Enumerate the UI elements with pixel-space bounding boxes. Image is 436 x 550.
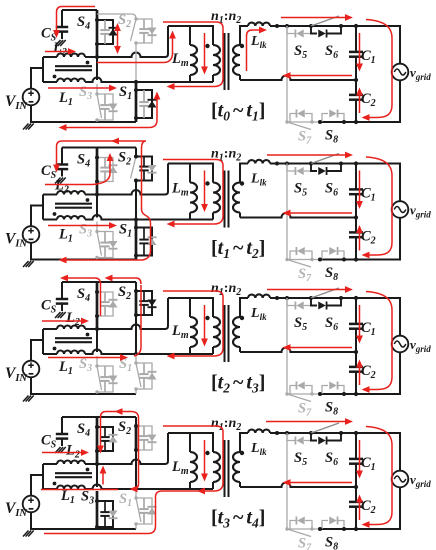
capacitor C1 (panel 4)	[349, 433, 363, 487]
current path magnetizing inductance (panel 3)	[201, 305, 208, 347]
switch S6 blade (open) (panel 2)	[311, 154, 339, 164]
current path S2 column down (panel 3)	[134, 285, 141, 356]
capacitor C1 (panel 3)	[349, 298, 363, 352]
current path secondary winding up to rail (panel 1)	[247, 27, 268, 71]
label S3 (panel 3)	[79, 356, 92, 374]
wire L2 row to transformer (hop at x=136) (panel 4)	[85, 433, 168, 464]
current path grid loop (panel 3)	[362, 292, 393, 393]
grid source vgrid (panel 2)	[392, 201, 409, 218]
switch S3 box with capacitor and diode (panel 4)	[97, 501, 118, 527]
label S8 (panel 1)	[325, 128, 338, 146]
current path L1 arrow (panel 1)	[48, 85, 117, 92]
current path top rail arrow (panel 2)	[267, 152, 353, 159]
middle rail secondary to C1-C2 (hop at x=286) (panel 1)	[240, 76, 356, 81]
transformer secondary winding (panel 3)	[233, 317, 240, 347]
polarity dot L1 (panel 3)	[53, 347, 57, 351]
switch S2 box with capacitor and diode (panel 2)	[136, 157, 157, 181]
current path L1 arrow (panel 3)	[48, 354, 128, 361]
current path L2 through S4 diode (panel 2)	[45, 153, 113, 185]
switch S8 loop and diode (panel 2)	[322, 247, 344, 260]
switch S1 blade (open) (panel 3)	[134, 361, 141, 390]
label S1 (panel 3)	[119, 356, 132, 374]
label L1 (panel 3)	[58, 359, 73, 377]
current path through C1 (panel 2)	[356, 171, 363, 210]
middle rail secondary to C1-C2 (hop at x=286) (panel 2)	[240, 213, 356, 218]
label S2 (panel 2)	[118, 150, 131, 168]
current path middle rail (panel 4)	[283, 479, 353, 486]
capacitor CS (panel 1)	[56, 10, 68, 39]
label CS (panel 4)	[41, 433, 57, 451]
current path S4 up to CS (panel 3)	[60, 275, 101, 316]
wire VIN to coupled inductor (panel 3)	[31, 329, 57, 361]
wire L2 row to transformer (hop at x=136) (panel 3)	[85, 298, 168, 329]
leakage inductance Llk (panel 3)	[248, 294, 270, 298]
switch S5 loop and diode (panel 4)	[287, 433, 311, 445]
transformer primary winding (panel 3)	[213, 317, 220, 347]
polarity dot L2 (panel 2)	[86, 198, 90, 202]
switch S7 loop and diode (panel 2)	[290, 247, 312, 260]
grey column S7 branch (panel 2)	[286, 164, 288, 260]
wire S2 to L1 row (grey) (panel 1)	[135, 43, 137, 80]
current path middle rail (panel 1)	[283, 72, 353, 79]
transformer primary top wire (panel 4)	[168, 433, 213, 452]
transformer secondary bottom stub (panel 1)	[239, 75, 241, 80]
switch S4 main line (closed) (panel 4)	[96, 417, 99, 464]
current path through C2 (panel 3)	[356, 360, 363, 386]
label CS (panel 1)	[41, 26, 57, 44]
switch S4 main line (closed) (panel 3)	[96, 282, 99, 329]
interval label (panel 2)	[211, 237, 265, 261]
label Lm (panel 3)	[171, 323, 189, 341]
node dot L1-S1 (panel 1)	[134, 80, 138, 84]
node dots top rail (panel 3)	[275, 296, 343, 300]
ground at VIN (panel 4)	[23, 531, 34, 537]
label vgrid (panel 1)	[410, 65, 431, 82]
top rail CS to S4 (panel 2)	[62, 147, 136, 149]
grid source vgrid (panel 1)	[392, 64, 409, 81]
label Lm (panel 4)	[171, 459, 189, 477]
switch S4 box with capacitor and diode (panel 4)	[97, 427, 118, 451]
polarity dot L2 (panel 3)	[86, 333, 90, 337]
transformer secondary winding (panel 2)	[233, 183, 240, 213]
top rail CS to S4 (panel 4)	[62, 416, 136, 418]
ground at CS (panel 4)	[55, 447, 66, 453]
grey column S7 branch (panel 3)	[286, 298, 288, 394]
switch S6 loop and diode (panel 2)	[311, 164, 341, 176]
current path L1 row (panel 4)	[41, 489, 118, 491]
label vgrid (panel 4)	[410, 472, 431, 489]
label VIN (panel 1)	[5, 93, 27, 112]
node dot bottom rail at C2 (panel 2)	[354, 257, 358, 261]
label S1 (panel 2)	[119, 222, 132, 240]
label S2 (panel 1)	[118, 12, 131, 30]
label C1 (panel 4)	[361, 455, 376, 473]
current path bottom rail and S1 (panel 1)	[59, 92, 161, 131]
node dot L2-S4 (panel 2)	[95, 192, 99, 196]
node dots S1 (panel 2)	[134, 226, 138, 258]
label Llk (panel 4)	[250, 441, 267, 457]
switch S3 box with capacitor and diode (panel 2)	[97, 232, 118, 258]
ground at CS (panel 3)	[55, 312, 66, 318]
node dot L1-S1 (panel 3)	[134, 352, 138, 356]
transformer primary bottom wire (panel 1)	[136, 75, 213, 82]
polarity dot secondary (panel 1)	[240, 44, 244, 48]
node dot C1-C2 midpoint (panel 3)	[354, 350, 358, 354]
transformer secondary bottom stub (panel 4)	[239, 482, 241, 487]
wire S2 to L1 row (panel 4)	[135, 450, 137, 487]
label CS (panel 3)	[41, 298, 57, 316]
secondary top rail (panel 2)	[270, 164, 400, 260]
label C1 (panel 2)	[361, 186, 376, 204]
polarity dot L2 (panel 4)	[86, 468, 90, 472]
ground at VIN (panel 3)	[23, 396, 34, 402]
transformer primary winding (panel 4)	[213, 452, 220, 482]
transformer core (panel 4)	[225, 440, 229, 497]
grey column S7 branch (panel 1)	[286, 26, 288, 122]
wire VIN to coupled inductor (panel 1)	[31, 57, 57, 89]
capacitor C2 (panel 3)	[349, 352, 363, 394]
node dots S8 (panel 1)	[318, 120, 346, 124]
polarity dot L1 (panel 2)	[53, 212, 57, 216]
rail corner into S2 (panel 2)	[135, 148, 137, 157]
current path transformer primary loop (panel 4)	[44, 426, 223, 534]
switch S1 main line (closed) (panel 2)	[135, 220, 138, 260]
middle rail secondary to C1-C2 (hop at x=286) (panel 3)	[240, 348, 356, 353]
transformer secondary top stub (panel 3)	[240, 298, 248, 317]
label Llk (panel 3)	[250, 306, 267, 322]
switch S3 stub (panel 2)	[96, 222, 98, 232]
capacitor C2 (panel 4)	[349, 487, 363, 529]
bottom branch wire (grey part) (panel 1)	[287, 121, 320, 123]
transformer primary top wire (panel 3)	[168, 298, 213, 317]
node dot C1-C2 midpoint (panel 4)	[354, 485, 358, 489]
label n1:n2 (panel 4)	[211, 416, 241, 433]
switch S7 blade (open) (panel 3)	[285, 392, 313, 401]
wire VIN to ground / bottom rail (panel 4)	[31, 512, 136, 529]
node dot L2-S4 (panel 1)	[95, 55, 99, 59]
label L1 (panel 4)	[60, 488, 75, 506]
label S4 (panel 2)	[77, 152, 90, 170]
switch S1 box with capacitor and diode (panel 3)	[136, 363, 157, 389]
inductor L1 (panel 1)	[57, 79, 85, 83]
current path top rail arrow (panel 1)	[281, 14, 353, 21]
leakage inductance Llk (panel 2)	[248, 160, 270, 164]
inductor L2 (panel 4)	[57, 461, 85, 464]
label n1:n2 (panel 2)	[211, 147, 241, 164]
node dot top rail at C1 (panel 1)	[354, 24, 358, 28]
ground at CS (panel 1)	[55, 40, 66, 46]
capacitor CS (panel 2)	[56, 148, 68, 177]
node dots top rail (panel 2)	[275, 162, 343, 166]
switch S6 blade (open) (panel 4)	[311, 423, 339, 433]
label VIN (panel 2)	[5, 231, 27, 250]
label S6 (panel 3)	[325, 315, 338, 333]
leakage inductance Llk (panel 1)	[248, 22, 270, 26]
switch S1 stub (panel 4)	[135, 489, 137, 498]
current path through S4 (resonant) (panel 1)	[114, 23, 121, 54]
current path top rail arrow (panel 3)	[267, 286, 353, 293]
node dots top rail (panel 1)	[275, 24, 343, 28]
switch S3 stub (panel 1)	[96, 84, 98, 94]
node dot L2-S4 (panel 3)	[95, 327, 99, 331]
capacitor CS (panel 3)	[56, 282, 68, 311]
transformer primary bottom wire (panel 4)	[136, 482, 213, 489]
node dots S8 (panel 2)	[318, 258, 346, 262]
capacitor C2 (panel 1)	[349, 80, 363, 122]
wire S4/S3 column between rows (panel 3)	[96, 329, 98, 352]
switch S3 main line (closed) (panel 4)	[96, 491, 99, 529]
node dots S2 (panel 4)	[134, 424, 138, 452]
magnetizing inductance Lm winding (panel 1)	[190, 45, 197, 75]
switch S5 loop and diode (panel 2)	[287, 164, 311, 176]
switch S5 loop and diode (panel 1)	[287, 26, 311, 38]
current path S2 column up to rail (panel 3)	[105, 275, 142, 284]
node dots S4 (panel 3)	[95, 290, 99, 318]
label S5 (panel 4)	[294, 450, 307, 468]
node dot bottom rail at C2 (panel 3)	[354, 392, 358, 396]
switch S3 stub (panel 3)	[96, 356, 98, 366]
switch S7 loop and diode (panel 3)	[290, 382, 312, 395]
transformer primary bottom wire (panel 3)	[136, 347, 213, 354]
wire VIN to ground / bottom rail (panel 2)	[31, 243, 136, 260]
wire L1 row to transformer (hop at x=97) (panel 1)	[85, 78, 213, 82]
switch S2 box with capacitor and diode (panel 3)	[136, 291, 157, 315]
node dot top rail at C1 (panel 2)	[354, 161, 358, 165]
label C2 (panel 2)	[361, 229, 376, 247]
switch S2 blade (open) (panel 2)	[131, 155, 138, 183]
label S5 (panel 1)	[294, 43, 307, 61]
switch S8 loop and diode (panel 4)	[322, 517, 344, 530]
inductor L1 (panel 3)	[57, 351, 85, 355]
label S2 (panel 4)	[118, 419, 131, 437]
bottom branch wire (grey part) (panel 2)	[287, 259, 320, 261]
label CS (panel 2)	[41, 163, 57, 181]
current path magnetizing inductance (panel 4)	[201, 440, 208, 482]
polarity dot primary (panel 3)	[205, 316, 209, 320]
wire S2 to L1 row (panel 3)	[135, 315, 137, 352]
label S4 (panel 3)	[77, 286, 90, 304]
label S7 (panel 1)	[298, 129, 312, 147]
switch S2 box with capacitor and diode (panel 1)	[136, 19, 157, 43]
core of coupled inductor L1-L2 (panel 1)	[55, 66, 92, 70]
switch S5 loop and diode (panel 3)	[287, 298, 311, 310]
transformer secondary winding (panel 4)	[233, 452, 240, 482]
bottom branch wire (black part) (panel 2)	[320, 259, 356, 261]
label L1 (panel 2)	[58, 227, 73, 245]
label S7 (panel 4)	[298, 536, 312, 550]
switch S1 box with capacitor and diode (panel 4)	[136, 498, 157, 524]
switch S7 loop and diode (panel 4)	[290, 517, 312, 530]
node dot C1-C2 midpoint (panel 1)	[354, 78, 358, 82]
label VIN (panel 3)	[5, 365, 27, 384]
switch S6 blade (open) (panel 3)	[311, 288, 339, 298]
current path transformer primary loop (panel 1)	[163, 22, 223, 90]
top rail CS to S4 (panel 3)	[62, 281, 136, 283]
switch S1 blade (open) (panel 4)	[134, 496, 141, 525]
current path transformer primary loop (panel 2)	[163, 160, 223, 228]
switch S2 main line (closed) (panel 3)	[135, 291, 138, 315]
switch S2 blade (open) (panel 1)	[131, 17, 138, 44]
current path L2 arrow (panel 1)	[45, 48, 76, 55]
label S1 (panel 4)	[119, 491, 132, 509]
label S7 (panel 3)	[298, 401, 312, 419]
node dots S2 (panel 2)	[134, 155, 138, 183]
label n1:n2 (panel 1)	[211, 9, 241, 26]
node dot L2-S4 (panel 4)	[95, 462, 99, 466]
switch S1 main line (closed) (panel 1)	[135, 82, 138, 122]
transformer primary winding (panel 2)	[213, 183, 220, 213]
current path transformer primary loop (panel 3)	[163, 291, 223, 359]
current path magnetizing inductance (panel 2)	[201, 171, 208, 213]
node dot L1-S1 (panel 2)	[134, 217, 138, 221]
switch S8 loop and diode (panel 3)	[322, 382, 344, 395]
switch S4 box with capacitor and diode (panel 2)	[97, 158, 118, 182]
rail corner into S2 (panel 4)	[135, 417, 137, 426]
voltage source VIN (panel 1)	[23, 89, 40, 106]
label S2 (panel 3)	[118, 284, 131, 302]
magnetizing inductance Lm winding (panel 3)	[190, 317, 197, 347]
transformer secondary top stub (panel 1)	[240, 26, 248, 45]
switch S6 blade (open) (panel 1)	[311, 16, 339, 26]
bottom branch wire (grey part) (panel 4)	[287, 528, 320, 530]
switch S6 loop and diode (panel 4)	[311, 433, 341, 445]
switch S2 box with capacitor and diode (panel 4)	[136, 426, 157, 450]
label S4 (panel 4)	[77, 421, 90, 439]
node dots S4 (panel 4)	[95, 425, 99, 453]
switch S1 box with capacitor and diode (panel 1)	[136, 90, 157, 118]
switch S4 box with capacitor and diode (panel 1)	[97, 20, 118, 44]
transformer secondary top stub (panel 4)	[240, 433, 248, 452]
label S6 (panel 4)	[325, 450, 338, 468]
polarity dot primary (panel 1)	[205, 44, 209, 48]
magnetizing inductance Lm winding (panel 2)	[190, 183, 197, 213]
capacitor CS (panel 4)	[56, 417, 68, 446]
polarity dot L1 (panel 1)	[53, 75, 57, 79]
polarity dot L2 (panel 1)	[86, 61, 90, 65]
label S3 (panel 1)	[79, 84, 92, 102]
current path top rail arrow (panel 4)	[266, 418, 353, 425]
inductor L2 (panel 3)	[57, 326, 85, 329]
polarity dot L1 (panel 4)	[53, 482, 57, 486]
label C2 (panel 4)	[361, 498, 376, 516]
label S5 (panel 2)	[294, 181, 307, 199]
node dots S1 (panel 1)	[134, 88, 138, 120]
switch S3 blade (open) (panel 3)	[95, 364, 101, 393]
polarity dot secondary (panel 2)	[240, 181, 244, 185]
ground at VIN (panel 1)	[23, 124, 34, 130]
label S5 (panel 3)	[294, 315, 307, 333]
label VIN (panel 4)	[5, 500, 27, 519]
wire S4/S3 column between rows (panel 2)	[96, 195, 98, 218]
wire S1 to bottom rail (grey) (panel 3)	[135, 389, 137, 394]
top rail CS to S4 (panel 1)	[62, 9, 97, 11]
wire L2 row to transformer (hop at x=136) (panel 1)	[85, 26, 168, 57]
transformer core (panel 2)	[225, 171, 229, 228]
switch S4 box with capacitor and diode (panel 3)	[97, 292, 118, 316]
wire VIN to ground / bottom rail (panel 3)	[31, 377, 136, 394]
bottom branch wire (black part) (panel 1)	[320, 121, 356, 123]
label L2 (panel 2)	[54, 178, 69, 196]
current path L2 arrow (panel 4)	[42, 449, 89, 456]
current path S2 column to L1 row (panel 4)	[130, 484, 139, 492]
label Lm (panel 1)	[171, 51, 189, 69]
current path through C2 (panel 1)	[356, 88, 363, 114]
secondary top rail (panel 4)	[270, 433, 400, 529]
transformer primary winding (panel 1)	[213, 45, 220, 75]
secondary top rail (panel 3)	[270, 298, 400, 394]
label S3 (panel 2)	[79, 222, 92, 240]
label S7 (panel 2)	[298, 266, 312, 284]
inductor L2 (panel 1)	[57, 54, 85, 57]
label S1 (panel 1)	[119, 84, 132, 102]
label S6 (panel 2)	[325, 181, 338, 199]
wire L1 row to transformer (hop at x=97) (panel 3)	[85, 350, 213, 355]
ground at VIN (panel 2)	[23, 261, 34, 267]
label C1 (panel 3)	[361, 320, 376, 338]
wire L1 row to transformer (hop at x=97) (panel 2)	[85, 215, 213, 220]
core of coupled inductor L1-L2 (panel 2)	[55, 204, 92, 208]
node dot bottom rail at C2 (panel 4)	[354, 527, 358, 531]
switch S3 box with capacitor and diode (panel 3)	[97, 366, 118, 392]
label C1 (panel 1)	[361, 48, 376, 66]
wire S4/S3 column between rows (panel 4)	[96, 464, 98, 487]
current path top rail to CS (panel 2)	[53, 138, 146, 173]
current path top rail into S4 (panel 4)	[97, 408, 138, 484]
core of coupled inductor L1-L2 (panel 3)	[55, 338, 92, 342]
transformer core (panel 1)	[225, 33, 229, 90]
transformer primary bottom wire (panel 2)	[136, 213, 213, 220]
secondary top rail (panel 1)	[270, 26, 400, 122]
label Lm (panel 2)	[171, 181, 189, 199]
label S8 (panel 3)	[325, 400, 338, 418]
inductor L2 (panel 2)	[57, 191, 85, 195]
current path L1 arrow (panel 2)	[48, 222, 117, 229]
transformer secondary bottom stub (panel 2)	[239, 213, 241, 218]
current path grid loop (panel 1)	[362, 20, 393, 121]
current path grid loop (panel 2)	[362, 157, 393, 258]
switch S8 loop and diode (panel 1)	[322, 110, 344, 123]
grid source vgrid (panel 3)	[392, 336, 409, 353]
current path middle rail (panel 2)	[283, 210, 353, 217]
node dot bottom rail at C2 (panel 1)	[354, 120, 358, 124]
switch S6 loop and diode (panel 3)	[311, 298, 341, 310]
transformer primary top wire (panel 1)	[168, 26, 213, 45]
label C2 (panel 1)	[361, 91, 376, 109]
middle rail secondary to C1-C2 (hop at x=286) (panel 4)	[240, 483, 356, 488]
interval label (panel 1)	[211, 100, 265, 124]
inductor L1 (panel 4)	[57, 486, 85, 489]
inductor L1 (panel 2)	[57, 216, 85, 220]
grid source vgrid (panel 4)	[392, 471, 409, 488]
label S8 (panel 2)	[325, 265, 338, 283]
node dot top rail at C1 (panel 4)	[354, 431, 358, 435]
polarity dot secondary (panel 4)	[240, 451, 244, 455]
label S8 (panel 4)	[325, 535, 338, 550]
node dots S4 (panel 2)	[95, 156, 99, 184]
label L1 (panel 1)	[58, 90, 73, 108]
switch S3 box with capacitor and diode (panel 1)	[97, 94, 118, 120]
switch S1 box with capacitor and diode (panel 2)	[136, 228, 157, 256]
grey column S7 branch (panel 4)	[286, 433, 288, 529]
node dot L1-S1 (panel 4)	[134, 487, 138, 491]
label L2 (panel 4)	[65, 443, 80, 461]
wire VIN to coupled inductor (panel 2)	[31, 195, 57, 227]
bottom branch wire (black part) (panel 3)	[320, 393, 356, 395]
grey rail to S2 (panel 1)	[97, 14, 136, 19]
wire L1 row to transformer (hop at x=97) (panel 4)	[85, 485, 213, 490]
node dot C1-C2 midpoint (panel 2)	[354, 215, 358, 219]
capacitor C1 (panel 2)	[349, 164, 363, 218]
